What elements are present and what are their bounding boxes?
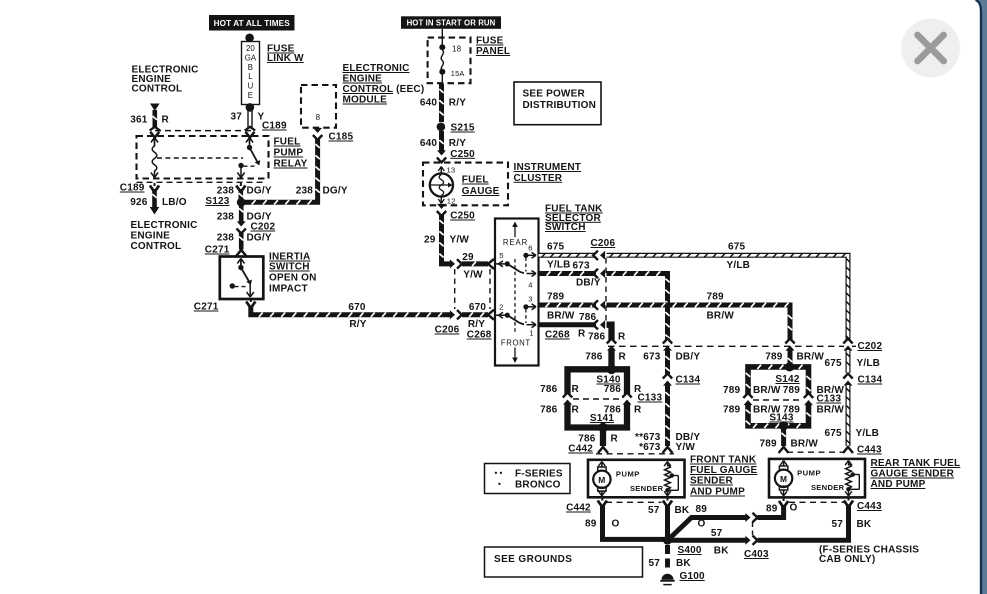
svg-text:CONTROL: CONTROL — [132, 84, 183, 95]
svg-text:57: 57 — [648, 505, 660, 516]
svg-text:675: 675 — [825, 358, 843, 369]
svg-text:675: 675 — [547, 242, 565, 253]
splice S142 — [785, 362, 794, 371]
connector C443 (789) — [779, 447, 789, 453]
svg-text:PUMP: PUMP — [616, 470, 640, 479]
see power distribution box — [514, 82, 601, 125]
svg-text:DG/Y: DG/Y — [323, 186, 348, 197]
connector C189 boundary — [155, 130, 251, 132]
connector (relay switch out) — [236, 186, 245, 193]
front pump box — [588, 460, 685, 498]
svg-text:C443: C443 — [857, 501, 882, 512]
svg-text:F-SERIES: F-SERIES — [515, 469, 563, 480]
svg-text:238: 238 — [217, 212, 235, 223]
wire 57 BK to ground (dashed) — [665, 545, 670, 572]
fuel tank selector switch box — [495, 219, 539, 366]
relay coil — [154, 138, 156, 147]
svg-text:• •: • • — [495, 469, 503, 478]
wire 57 BK front — [665, 505, 670, 539]
svg-text:Y/LB: Y/LB — [857, 358, 881, 369]
svg-text:R/Y: R/Y — [449, 138, 466, 149]
svg-text:C268: C268 — [467, 330, 492, 341]
connector C133 loop right — [804, 400, 813, 405]
svg-text:Y/W: Y/W — [463, 270, 483, 281]
connector C206 on 29 — [450, 259, 455, 268]
svg-text:O: O — [790, 503, 798, 514]
svg-text:REAR TANK FUEL: REAR TANK FUEL — [871, 458, 961, 469]
svg-text:57: 57 — [831, 519, 843, 530]
svg-text:6: 6 — [528, 244, 532, 253]
svg-text:AND PUMP: AND PUMP — [690, 487, 745, 498]
connector C189 lower boundary — [137, 181, 267, 183]
svg-text:57: 57 — [648, 558, 660, 569]
wire 673 DB/Y (pin 4) — [539, 271, 597, 276]
svg-text:Y/W: Y/W — [676, 442, 696, 453]
svg-text:GA: GA — [245, 53, 257, 62]
fuse link W (20 GA BLUE) — [242, 42, 260, 105]
svg-text:C250: C250 — [450, 149, 475, 160]
svg-text:LINK W: LINK W — [267, 53, 304, 64]
svg-text:238: 238 — [217, 233, 235, 244]
connector C134 on 675 — [844, 381, 853, 386]
svg-text:675: 675 — [825, 428, 843, 439]
svg-text:R: R — [162, 115, 170, 126]
svg-text:786: 786 — [588, 332, 606, 343]
sender resistor rear — [848, 461, 850, 466]
svg-text:SENDER: SENDER — [690, 476, 733, 487]
svg-text:S143: S143 — [769, 413, 793, 424]
connector C202 — [237, 221, 246, 226]
svg-text:57: 57 — [711, 528, 723, 539]
svg-text:R: R — [578, 329, 586, 340]
svg-text:789: 789 — [707, 292, 725, 303]
svg-text:C442: C442 — [566, 503, 591, 514]
svg-text:C133: C133 — [817, 394, 842, 405]
wire 238 DG/Y (EEC to S123) — [243, 138, 318, 202]
svg-text:20: 20 — [246, 44, 255, 53]
svg-text:BK: BK — [675, 505, 690, 516]
svg-text:BR/W: BR/W — [791, 439, 819, 450]
svg-text:C271: C271 — [194, 302, 219, 313]
svg-text:C202: C202 — [858, 341, 883, 352]
svg-text:786: 786 — [579, 312, 597, 323]
connector boundary dashes C206 C268 — [454, 269, 456, 309]
splice S141 — [598, 423, 608, 433]
svg-text:SENDER: SENDER — [811, 483, 845, 492]
svg-text:ELECTRONIC: ELECTRONIC — [131, 220, 198, 231]
svg-text:O: O — [612, 519, 620, 530]
wire 238 DG/Y — [239, 232, 244, 250]
splice S140 — [607, 365, 617, 375]
svg-text:C268: C268 — [545, 330, 570, 341]
svg-text:C134: C134 — [676, 375, 701, 386]
wire 786 R loop — [568, 369, 612, 394]
svg-text:361: 361 — [130, 115, 148, 126]
splice S123 — [237, 198, 246, 207]
svg-text:CONTROL: CONTROL — [131, 241, 182, 252]
svg-text:C442: C442 — [568, 444, 593, 455]
wire 670 R/Y — [251, 306, 451, 315]
svg-text:DB/Y: DB/Y — [676, 352, 701, 363]
svg-text:3: 3 — [528, 295, 532, 304]
wire 640 R/Y — [439, 84, 444, 122]
svg-text:13: 13 — [447, 166, 456, 175]
connector C442 below — [598, 501, 607, 508]
wire 786 R (pin 1) — [539, 322, 597, 327]
svg-text:786: 786 — [540, 384, 558, 395]
svg-text:CONTROL (EEC): CONTROL (EEC) — [343, 84, 425, 95]
node HOT AT ALL TIMES — [209, 15, 295, 31]
svg-text:789: 789 — [723, 405, 741, 416]
ground G100 — [662, 574, 674, 580]
svg-text:238: 238 — [296, 186, 314, 197]
svg-text:670: 670 — [348, 302, 366, 313]
svg-text:C271: C271 — [205, 245, 230, 256]
wire 926 LB/O — [152, 189, 157, 207]
svg-text:BRONCO: BRONCO — [515, 480, 561, 491]
wire — [245, 34, 254, 43]
svg-text:89: 89 — [585, 519, 597, 530]
splice S143 — [779, 421, 788, 430]
svg-text:640: 640 — [420, 98, 438, 109]
svg-text:HOT AT ALL TIMES: HOT AT ALL TIMES — [214, 19, 291, 28]
wire 675 Y/LB (pin 6) — [539, 253, 597, 258]
svg-text:HOT IN START OR RUN: HOT IN START OR RUN — [407, 18, 496, 27]
svg-text:675: 675 — [728, 242, 746, 253]
svg-text:BK: BK — [714, 546, 729, 557]
svg-text:R: R — [618, 332, 626, 343]
rear pump box — [769, 459, 865, 498]
connector boundary C442 — [596, 453, 674, 455]
svg-text:REAR: REAR — [503, 238, 528, 247]
wire 238 DG/Y — [239, 202, 244, 222]
svg-text:R/Y: R/Y — [468, 319, 485, 330]
svg-text:C189: C189 — [120, 183, 145, 194]
svg-text:4: 4 — [528, 281, 532, 290]
wire 361 R — [150, 104, 160, 112]
svg-text:SWITCH: SWITCH — [545, 222, 586, 233]
inertia switch box — [220, 257, 263, 300]
svg-text:R/Y: R/Y — [349, 319, 366, 330]
wire 57 BK rear — [758, 506, 849, 541]
legend box F-SERIES / BRONCO — [485, 464, 571, 494]
svg-text:GAUGE: GAUGE — [462, 186, 500, 197]
svg-text:Y/LB: Y/LB — [727, 260, 751, 271]
svg-text:BK: BK — [676, 558, 691, 569]
svg-text:M: M — [780, 474, 787, 484]
fuel gauge — [430, 173, 453, 196]
splice S400 — [663, 536, 672, 545]
svg-text:BR/W: BR/W — [707, 311, 735, 322]
svg-text:IMPACT: IMPACT — [269, 284, 308, 295]
svg-text:C133: C133 — [638, 393, 663, 404]
connector C206/C268 pair on 670 — [450, 310, 455, 319]
svg-text:R/Y: R/Y — [449, 98, 466, 109]
svg-text:89: 89 — [766, 504, 778, 515]
svg-text:89: 89 — [696, 504, 708, 515]
svg-text:FUEL: FUEL — [274, 137, 301, 148]
close button — [901, 19, 960, 78]
svg-text:926: 926 — [130, 197, 148, 208]
svg-text:DG/Y: DG/Y — [247, 233, 272, 244]
svg-text:S215: S215 — [451, 123, 475, 134]
relay switch — [249, 138, 251, 144]
svg-text:Y/LB: Y/LB — [856, 428, 880, 439]
svg-text:R: R — [619, 352, 627, 363]
svg-text:BR/W: BR/W — [817, 405, 845, 416]
svg-text:C206: C206 — [435, 325, 460, 336]
svg-text:CLUSTER: CLUSTER — [514, 173, 563, 184]
svg-text:789: 789 — [723, 385, 741, 396]
svg-text:R: R — [572, 384, 580, 395]
svg-text:Y/W: Y/W — [450, 235, 470, 246]
wire 789 BR/W loop — [748, 367, 790, 394]
svg-text:BR/W: BR/W — [753, 385, 781, 396]
svg-text:12: 12 — [447, 197, 456, 206]
connector C185 — [313, 128, 322, 133]
svg-text:ENGINE: ENGINE — [343, 74, 383, 85]
svg-text:C189: C189 — [262, 121, 287, 132]
svg-text:8: 8 — [316, 113, 321, 122]
svg-text:673: 673 — [573, 261, 591, 272]
svg-text:Y/LB: Y/LB — [547, 260, 571, 271]
svg-text:PUMP: PUMP — [274, 148, 304, 159]
splice S215 — [437, 123, 446, 132]
svg-text:15A: 15A — [451, 69, 465, 78]
svg-text:PANEL: PANEL — [476, 46, 510, 57]
svg-text:S142: S142 — [775, 374, 799, 385]
svg-text:DB/Y: DB/Y — [576, 278, 601, 289]
fuse panel box (fuse 18, 15A) — [428, 38, 471, 84]
svg-text:786: 786 — [585, 352, 603, 363]
svg-text:DG/Y: DG/Y — [247, 186, 272, 197]
svg-text:C403: C403 — [744, 549, 769, 560]
svg-text:670: 670 — [469, 302, 487, 313]
wire 29 Y/W — [442, 214, 452, 264]
svg-text:FUEL GAUGE: FUEL GAUGE — [690, 465, 758, 476]
svg-text:SEE GROUNDS: SEE GROUNDS — [494, 554, 572, 565]
connector C189 (relay coil out) — [150, 186, 159, 193]
svg-text:29: 29 — [462, 252, 474, 263]
svg-text:789: 789 — [760, 439, 778, 450]
wire 89 O front — [603, 505, 666, 539]
selector link — [514, 259, 516, 334]
motor M rear — [775, 470, 792, 487]
svg-text:O: O — [698, 519, 706, 530]
svg-text:FUSE: FUSE — [476, 36, 504, 47]
svg-text:R: R — [611, 434, 619, 445]
connector C443 (675) — [843, 447, 853, 453]
svg-text:RELAY: RELAY — [274, 159, 308, 170]
svg-text:5: 5 — [499, 251, 503, 260]
wire 789 BR/W to C443 — [781, 426, 786, 446]
connector C133 loop right — [623, 400, 632, 405]
connector C202 on 673 — [663, 346, 672, 351]
svg-text:DISTRIBUTION: DISTRIBUTION — [523, 100, 597, 111]
svg-text:C202: C202 — [251, 222, 276, 233]
svg-text:R: R — [572, 405, 580, 416]
svg-text:SWITCH: SWITCH — [269, 262, 310, 273]
wire 37 Y (hollow) — [246, 103, 255, 112]
svg-text:CAB ONLY): CAB ONLY) — [819, 554, 875, 565]
wire 57 BK S400 to C403 — [670, 538, 747, 543]
svg-text:FRONT: FRONT — [501, 339, 531, 348]
svg-text:SENDER: SENDER — [630, 484, 664, 493]
svg-text:789: 789 — [547, 292, 565, 303]
connector C442 — [598, 447, 608, 453]
svg-text:238: 238 — [217, 186, 235, 197]
svg-text:C185: C185 — [329, 132, 354, 143]
motor M front — [593, 471, 610, 488]
selector pole 1 — [498, 263, 500, 265]
svg-text:OPEN ON: OPEN ON — [269, 273, 317, 284]
svg-text:29: 29 — [424, 235, 436, 246]
svg-text:640: 640 — [420, 138, 438, 149]
wire 640 R/Y — [439, 131, 444, 152]
svg-text:AND PUMP: AND PUMP — [871, 479, 926, 490]
svg-text:*673: *673 — [639, 442, 661, 453]
svg-text:C206: C206 — [591, 238, 616, 249]
selector pole 2 — [498, 314, 500, 316]
relay K fuel pump relay box — [137, 136, 269, 179]
svg-text:BK: BK — [857, 519, 872, 530]
svg-text:789: 789 — [783, 385, 801, 396]
svg-text:FRONT TANK: FRONT TANK — [690, 455, 757, 466]
svg-text:•: • — [498, 480, 501, 489]
svg-text:1: 1 — [529, 329, 533, 338]
connector C202 on 786 — [607, 346, 616, 351]
EEC module box (pin 8) — [301, 85, 336, 128]
svg-text:G100: G100 — [680, 571, 706, 582]
svg-text:2: 2 — [499, 303, 503, 312]
right edge band — [976, 0, 987, 594]
svg-text:R: R — [634, 405, 642, 416]
relay actuation link — [157, 157, 243, 159]
connector C202 on 789 — [786, 346, 795, 351]
connector C189 — [245, 127, 255, 131]
sender resistor front — [667, 462, 669, 467]
connector boundary C202 — [608, 345, 844, 347]
node HOT IN START OR RUN — [401, 16, 501, 29]
svg-text:18: 18 — [452, 45, 462, 54]
svg-text:786: 786 — [604, 384, 622, 395]
svg-text:C134: C134 — [858, 375, 883, 386]
connector boundary C403 — [752, 522, 754, 535]
svg-text:LB/O: LB/O — [162, 197, 187, 208]
connector C133 loop left — [744, 400, 753, 405]
wire 786 R to C442 — [600, 428, 606, 447]
connector on 673 at C442 — [663, 447, 673, 453]
svg-text:INSTRUMENT: INSTRUMENT — [514, 162, 582, 173]
wire 89 O to C403 — [670, 518, 748, 539]
wire 789 BR/W (pin 3) — [539, 303, 597, 308]
svg-text:BR/W: BR/W — [797, 352, 825, 363]
svg-text:C443: C443 — [857, 445, 882, 456]
svg-text:B: B — [248, 63, 253, 72]
svg-text:S141: S141 — [590, 413, 614, 424]
svg-text:FUEL: FUEL — [462, 175, 489, 186]
connector C202 on 675 — [844, 346, 853, 351]
connector C133 loop left — [563, 400, 572, 405]
svg-text:S400: S400 — [678, 545, 702, 556]
svg-text:C250: C250 — [450, 211, 475, 222]
svg-text:S123: S123 — [205, 196, 229, 207]
svg-text:U: U — [248, 82, 254, 91]
svg-text:M: M — [598, 475, 605, 485]
svg-text:SEE POWER: SEE POWER — [523, 89, 586, 100]
instrument cluster box — [423, 163, 508, 206]
svg-text:GAUGE SENDER: GAUGE SENDER — [871, 469, 955, 480]
svg-text:E: E — [248, 91, 253, 100]
connector boundary C443 — [787, 451, 845, 453]
svg-text:789: 789 — [765, 352, 783, 363]
connector C134 on 673 — [663, 381, 672, 386]
connector C443 below — [779, 501, 788, 508]
see grounds box — [485, 547, 643, 577]
svg-text:786: 786 — [540, 405, 558, 416]
svg-text:BR/W: BR/W — [547, 311, 575, 322]
svg-text:ELECTRONIC: ELECTRONIC — [343, 63, 410, 74]
svg-text:MODULE: MODULE — [343, 95, 388, 106]
svg-text:673: 673 — [643, 352, 661, 363]
svg-text:PUMP: PUMP — [797, 469, 821, 478]
svg-text:37: 37 — [230, 112, 242, 123]
connector boundary C206/C268 right — [605, 258, 607, 322]
svg-text:L: L — [248, 72, 253, 81]
svg-text:ENGINE: ENGINE — [131, 231, 171, 242]
